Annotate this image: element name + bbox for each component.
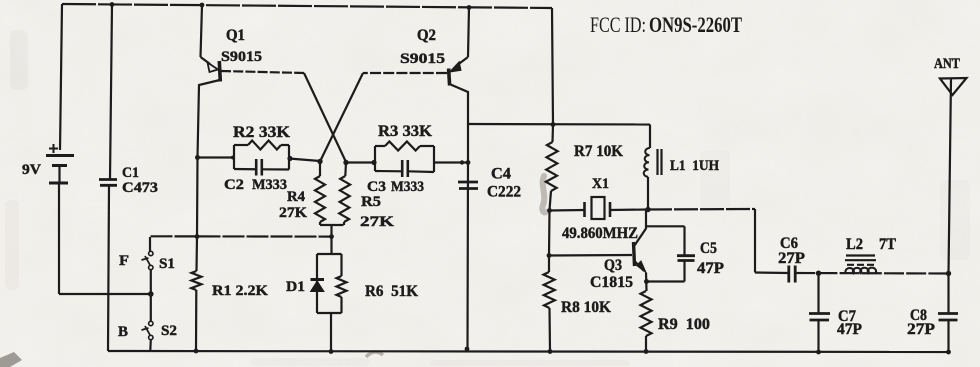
svg-text:R9 100: R9 100 (658, 316, 710, 333)
svg-text:M333: M333 (252, 177, 287, 193)
svg-text:B: B (118, 324, 128, 340)
svg-text:D1: D1 (286, 279, 305, 295)
svg-text:R5: R5 (361, 194, 381, 210)
svg-text:C3: C3 (367, 179, 386, 195)
svg-text:C473: C473 (122, 180, 158, 196)
svg-text:X1: X1 (592, 176, 609, 192)
svg-text:R7 10K: R7 10K (574, 143, 623, 160)
svg-text:Q2: Q2 (417, 27, 436, 44)
svg-text:S9015: S9015 (400, 51, 445, 67)
svg-text:49.860MHZ: 49.860MHZ (562, 225, 638, 242)
svg-text:R3 33K: R3 33K (378, 123, 432, 140)
svg-text:Q1: Q1 (226, 27, 245, 44)
svg-text:R2 33K: R2 33K (233, 124, 290, 141)
svg-text:FCC ID:: FCC ID: (590, 12, 646, 37)
svg-text:L1 1UH: L1 1UH (670, 158, 719, 174)
svg-text:ON9S-2260T: ON9S-2260T (649, 12, 742, 37)
svg-text:27K: 27K (279, 205, 307, 221)
svg-text:C1815: C1815 (590, 274, 633, 291)
svg-text:Q3: Q3 (604, 257, 622, 274)
svg-text:F: F (119, 253, 129, 269)
svg-text:C222: C222 (487, 184, 521, 201)
svg-text:27P: 27P (778, 250, 806, 267)
svg-text:C1: C1 (122, 165, 139, 181)
svg-text:9V: 9V (22, 162, 41, 178)
svg-text:ANT: ANT (934, 56, 960, 72)
svg-text:S9015: S9015 (221, 49, 262, 65)
svg-text:C2: C2 (224, 177, 244, 193)
svg-text:C4: C4 (491, 166, 511, 183)
svg-text:47P: 47P (697, 260, 725, 277)
svg-text:27K: 27K (360, 214, 394, 230)
svg-text:M333: M333 (391, 179, 424, 195)
svg-text:7T: 7T (879, 236, 897, 253)
svg-text:L2: L2 (846, 236, 863, 253)
svg-text:R6 51K: R6 51K (365, 283, 418, 300)
svg-text:S1: S1 (159, 256, 175, 272)
svg-text:C5: C5 (700, 240, 717, 257)
svg-text:R1 2.2K: R1 2.2K (212, 283, 268, 299)
svg-text:R8 10K: R8 10K (561, 299, 611, 316)
svg-text:27P: 27P (907, 321, 936, 338)
svg-text:47P: 47P (837, 321, 863, 338)
svg-text:S2: S2 (161, 323, 177, 339)
svg-text:R4: R4 (287, 189, 305, 205)
